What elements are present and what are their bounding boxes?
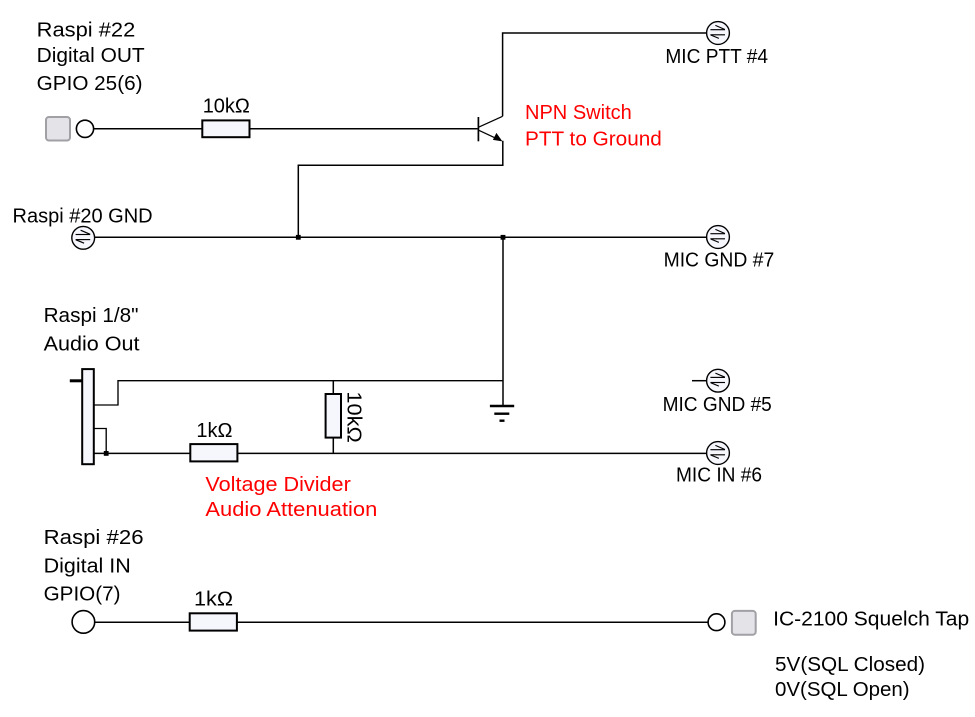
svg-text:NPN Switch: NPN Switch bbox=[525, 102, 632, 124]
svg-text:10kΩ: 10kΩ bbox=[203, 96, 250, 118]
wire emitter down and left bbox=[298, 141, 503, 238]
pad GPIO25 bbox=[46, 117, 70, 141]
wire jack sleeve to top bus bbox=[94, 381, 503, 405]
svg-text:IC-2100 Squelch Tap: IC-2100 Squelch Tap bbox=[773, 609, 969, 631]
connector Raspi GND bbox=[72, 226, 95, 249]
stub R3 top bbox=[332, 381, 334, 394]
resistor R4 1k bbox=[190, 613, 237, 630]
svg-text:MIC PTT #4: MIC PTT #4 bbox=[665, 46, 768, 68]
resistor R2 1k bbox=[190, 444, 237, 461]
wire jack ring step bbox=[94, 429, 106, 454]
wire R4 to squelch tap bbox=[237, 621, 708, 623]
svg-text:PTT to Ground: PTT to Ground bbox=[525, 129, 662, 151]
jack tip stub bbox=[70, 379, 82, 382]
svg-text:MIC GND #7: MIC GND #7 bbox=[664, 249, 775, 271]
svg-text:10kΩ: 10kΩ bbox=[343, 391, 365, 442]
svg-text:Voltage Divider: Voltage Divider bbox=[205, 474, 351, 496]
svg-text:Audio Attenuation: Audio Attenuation bbox=[205, 499, 377, 521]
svg-text:1kΩ: 1kΩ bbox=[196, 420, 232, 442]
stub R3 bottom bbox=[332, 438, 334, 454]
svg-text:5V(SQL Closed): 5V(SQL Closed) bbox=[775, 654, 925, 676]
connector MIC PTT bbox=[707, 22, 730, 45]
pin circle GPIO25 bbox=[76, 120, 93, 137]
connector MIC GND 7 bbox=[707, 226, 730, 249]
svg-text:MIC IN #6: MIC IN #6 bbox=[676, 465, 762, 487]
transistor Q1 NPN bbox=[478, 116, 502, 141]
wire collector up bbox=[503, 33, 707, 116]
stub MIC GND 5 bbox=[692, 380, 707, 382]
wire pin to R4 bbox=[95, 621, 190, 623]
junction GND drop bbox=[501, 235, 506, 240]
junction emitter-GND bbox=[296, 235, 301, 240]
svg-text:Audio Out: Audio Out bbox=[44, 334, 140, 356]
wire jack tip to R2 bbox=[94, 452, 191, 454]
svg-text:Raspi #26: Raspi #26 bbox=[44, 527, 144, 549]
resistor R1 10k bbox=[202, 120, 249, 137]
svg-text:MIC GND #5: MIC GND #5 bbox=[663, 394, 772, 416]
connector MIC GND 5 bbox=[707, 369, 730, 392]
pin circle GPIO7 bbox=[72, 611, 95, 634]
connector MIC IN 6 bbox=[707, 442, 730, 465]
wire pin to R1 bbox=[94, 128, 203, 130]
svg-text:Raspi #22: Raspi #22 bbox=[37, 20, 136, 42]
svg-text:Raspi 1/8": Raspi 1/8" bbox=[44, 305, 139, 327]
wire GND bus bbox=[95, 236, 707, 238]
svg-text:GPIO 25(6): GPIO 25(6) bbox=[37, 73, 143, 95]
svg-text:Digital OUT: Digital OUT bbox=[37, 45, 145, 67]
wire R2 to MIC IN bbox=[237, 452, 706, 454]
resistor R3 10k shunt bbox=[326, 394, 341, 438]
pad squelch bbox=[732, 611, 756, 635]
svg-text:1kΩ: 1kΩ bbox=[194, 589, 233, 611]
ground symbol bbox=[490, 406, 514, 421]
pin circle squelch bbox=[708, 614, 725, 631]
wire GND drop to earth bbox=[502, 237, 504, 405]
svg-text:GPIO(7): GPIO(7) bbox=[44, 583, 121, 605]
svg-text:0V(SQL Open): 0V(SQL Open) bbox=[775, 679, 910, 701]
junction jack ring bbox=[104, 451, 109, 456]
audio jack body bbox=[82, 369, 94, 464]
svg-text:Digital IN: Digital IN bbox=[44, 555, 131, 577]
svg-text:Raspi #20 GND: Raspi #20 GND bbox=[13, 206, 153, 228]
wire R1 to base bbox=[250, 128, 478, 130]
